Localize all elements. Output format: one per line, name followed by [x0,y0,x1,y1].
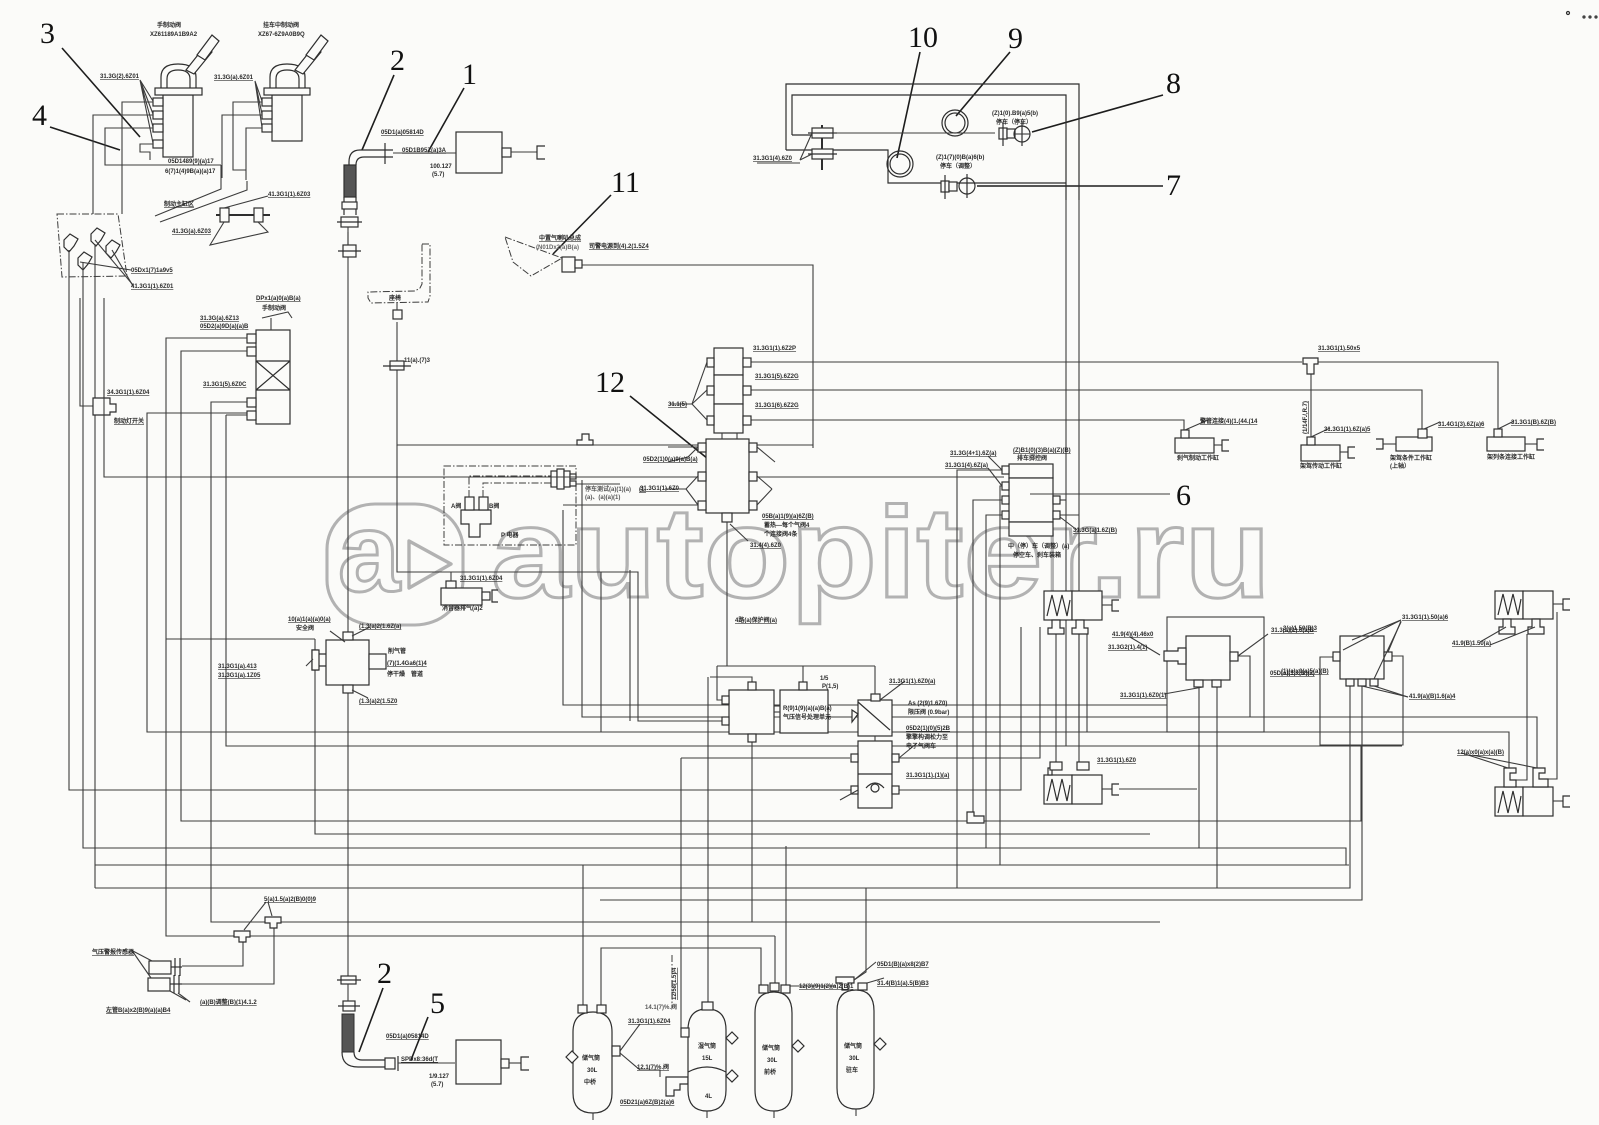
svg-text:挂车中制动阀: 挂车中制动阀 [263,21,299,29]
svg-text:A阀: A阀 [451,502,461,510]
spring chamber top left [1044,591,1119,634]
wire x752 drop [751,741,753,922]
wire rchamber bracket x1557 [1548,612,1557,779]
wire left bundle v x83 [83,298,1346,865]
svg-text:座椅: 座椅 [388,294,401,302]
svg-text:制动灯开关: 制动灯开关 [114,417,144,425]
svg-text:41.9(a)(B)1.6(a)4: 41.9(a)(B)1.6(a)4 [1409,694,1456,700]
wire left bundle v x69 [69,296,851,790]
svg-text:(5.7): (5.7) [432,172,444,178]
svg-text:11(a).(7)3: 11(a).(7)3 [404,358,431,364]
svg-text:10: 10 [908,21,938,54]
svg-text:储气筒: 储气筒 [761,1044,780,1052]
svg-text:(1)(a)x0(a)5(a)(B): (1)(a)x0(a)5(a)(B) [1281,669,1329,675]
svg-text:1/5: 1/5 [820,676,829,682]
svg-text:9: 9 [1008,22,1023,55]
tee bottom left 2 [265,917,281,928]
wire abs left port y721 [629,570,631,721]
svg-text:31.3G(a).6Z01: 31.3G(a).6Z01 [214,75,254,81]
air tank 1 [566,1005,688,1120]
pressure sensor 2 [133,952,190,1002]
svg-text:(1.3(a)2(1.5Z0: (1.3(a)2(1.5Z0 [359,699,398,705]
leader fans to valve ports [140,80,262,143]
svg-text:12(a)x0(a)x(a)(B): 12(a)x0(a)x(a)(B) [1457,750,1504,756]
valve 12 block [104,298,775,666]
wire seat drop x397 [397,322,577,445]
wire horn line [581,265,813,445]
svg-text:蓄热—每个气阀4: 蓄热—每个气阀4 [764,521,810,529]
wire frame right inner [1065,200,1067,746]
wire dashbox drop x638 [397,445,729,721]
svg-text:31.3G1(1).6Z0: 31.3G1(1).6Z0 [1097,758,1137,764]
callout 2 lower [359,957,392,1052]
wire bus y865 [95,864,1349,866]
svg-text:架驾传动工作缸: 架驾传动工作缸 [1299,462,1342,470]
svg-text:31.3G1(a).1Z05: 31.3G1(a).1Z05 [218,673,261,679]
svg-text:05D2(1)0(a)9(a)B(a): 05D2(1)0(a)9(a)B(a) [643,457,698,463]
svg-text:P(1,5): P(1,5) [822,684,838,690]
wire abs left y677 [710,677,752,682]
svg-text:(1.3(a)2(1.6Z(a): (1.3(a)2(1.6Z(a) [359,624,401,630]
callout 9 [956,22,1023,116]
svg-text:05Dx1(7)1a9v5: 05Dx1(7)1a9v5 [131,268,173,274]
callout 11 [553,166,640,254]
wire tank3-tank4 y986 [789,985,836,987]
wire frame right outer [1078,200,1080,732]
svg-text:(7)(1.4Ga6(1)4: (7)(1.4Ga6(1)4 [387,661,427,667]
svg-text:1/9.127: 1/9.127 [429,1074,450,1080]
svg-text:手制动阀: 手制动阀 [262,304,286,312]
svg-text:05D1489(9)(a)17: 05D1489(9)(a)17 [168,159,214,165]
cab frame top right [757,84,1079,200]
svg-text:8: 8 [1166,67,1181,100]
horn 11 [505,237,582,276]
svg-text:12.1(7)%.阀: 12.1(7)%.阀 [637,1063,669,1071]
pressure sensor 1 [131,950,182,976]
wire tank4 elbow x866 [854,888,866,980]
abs box B ecu [774,682,828,733]
wire relay right stub [1238,656,1250,717]
callout 8 [1032,67,1181,132]
wire sensor1 to tee [182,942,243,966]
svg-text:手制动阀: 手制动阀 [157,21,181,29]
svg-text:30L: 30L [849,1056,860,1062]
wire valve6 left drop x1000 [1000,486,1002,865]
drain dashdot line [671,955,673,1008]
svg-text:3(a)1.50(B)3: 3(a)1.50(B)3 [1283,626,1318,632]
svg-text:6(7)1(4)9B(a)(a)17: 6(7)1(4)9B(a)(a)17 [165,169,216,175]
svg-text:41.3G1(1).6Z03: 41.3G1(1).6Z03 [268,192,311,198]
mini cylinder 4 [1487,421,1544,451]
wire valve12 out y362 [751,361,1302,363]
svg-text:停车测试(a)(1)(a): 停车测试(a)(1)(a) [585,485,631,493]
wires from hand valves [122,102,153,214]
svg-text:31.3G(a).6Z13: 31.3G(a).6Z13 [200,316,240,322]
cross fittings left of frame [800,125,837,170]
tee fitting on seat line [383,361,411,370]
svg-text:前桥: 前桥 [764,1068,777,1076]
svg-text:31.4G1(3).6Z(a)6: 31.4G1(3).6Z(a)6 [1438,422,1485,428]
svg-text:(Z)1(0).B9(a)5(b): (Z)1(0).B9(a)5(b) [992,111,1038,117]
svg-text:5: 5 [430,987,445,1020]
svg-text:(Z)B1(0)(3)B(a)(Z)(B): (Z)B1(0)(3)B(a)(Z)(B) [1013,448,1071,454]
svg-text:制动主缸区: 制动主缸区 [164,200,194,208]
manifold bar [210,196,270,245]
wire y758 right [899,627,1040,758]
wire tank3 right x786 [785,846,787,992]
svg-text:31.3G1(1).6Z(a)5: 31.3G1(1).6Z(a)5 [1324,427,1371,433]
svg-text:4L: 4L [705,1094,712,1100]
hand control valve right [262,35,328,141]
svg-text:P 电器: P 电器 [501,531,520,539]
svg-text:05D1(a)05814D: 05D1(a)05814D [386,1034,429,1040]
wire y888 relay right drop2 [95,687,1217,888]
svg-text:31.3G1(1).6Z0: 31.3G1(1).6Z0 [640,486,680,492]
wire tank3 feed x774 [774,936,776,990]
callout 1 [428,58,477,152]
wire rv tab drop x1350 [1217,686,1350,888]
svg-text:储气筒: 储气筒 [843,1042,862,1050]
svg-text:中桥: 中桥 [584,1078,597,1086]
svg-text:司警电源到(4).2(1.5Z4: 司警电源到(4).2(1.5Z4 [589,242,649,250]
svg-text:31.4(B)1(a).5(B)B3: 31.4(B)1(a).5(B)B3 [877,981,929,987]
svg-text:架驾条件工作缸: 架驾条件工作缸 [1389,454,1432,462]
callout 10 [897,21,938,158]
svg-text:05D1(a)05814D: 05D1(a)05814D [381,130,424,136]
hose 2 lower [337,976,455,1071]
right valve block [1333,620,1408,697]
wire y790 relay bottom [899,627,1021,790]
gauge 10 [887,151,913,177]
svg-text:(5.7): (5.7) [431,1082,443,1088]
valve 12 column [670,348,751,433]
wire solenoid feed x211 [211,403,1160,922]
check valve mid [852,666,905,736]
svg-text:autopiter.ru: autopiter.ru [491,481,1271,625]
svg-text:4路(a)保护阀(a): 4路(a)保护阀(a) [735,616,777,624]
svg-text:(1/14F./,R.7): (1/14F./,R.7) [1303,401,1309,434]
valve 6 [988,456,1170,536]
svg-text:14.1(7)%.阀: 14.1(7)%.阀 [645,1003,677,1011]
wire solenoid feed x181 [181,352,1361,821]
wire chamber tab x1079 [1078,634,1080,768]
callout 4 [32,99,120,150]
wire dashbox drop x601 [600,572,602,732]
svg-text:(上轴）: (上轴） [1390,462,1410,470]
safety valve [306,627,386,698]
svg-text:B阀: B阀 [489,502,499,510]
svg-text:6: 6 [1176,479,1191,512]
svg-text:警管连接(4)(1.(44.(14: 警管连接(4)(1.(44.(14 [1199,417,1258,425]
svg-text:05D2(1)(0)(5)2B: 05D2(1)(0)(5)2B [906,726,951,732]
mini cylinder 2 [1301,428,1355,461]
svg-text:05D2(a)9D(a)(a)B: 05D2(a)9D(a)(a)B [200,324,249,330]
svg-text:湿气筒: 湿气筒 [698,1042,716,1050]
wire y705 [563,510,1167,705]
svg-text:中（停）车（调整）(a): 中（停）车（调整）(a) [1008,542,1069,550]
svg-text:31.3G2(1).4(1): 31.3G2(1).4(1) [1108,645,1147,651]
svg-text:DPx1(a)0(a)B(a): DPx1(a)0(a)B(a) [256,296,301,302]
svg-text:41.9(B)1.50(a): 41.9(B)1.50(a) [1452,641,1491,647]
wire rv loop [1320,656,1403,745]
wire solenoid feed x226 [226,415,1402,746]
dryer box 1 [393,132,545,173]
svg-text:SPDx8:36d(T: SPDx8:36d(T [401,1057,438,1063]
spring chamber top right [1480,591,1570,645]
svg-text:(Z)1(7)(0)B(a)6(b): (Z)1(7)(0)B(a)6(b) [936,155,984,161]
mini cylinder 3 [1376,422,1440,451]
svg-text:XZ67-6Z9A0B9Q: XZ67-6Z9A0B9Q [258,32,305,38]
air tank 4 [836,962,886,1116]
svg-text:31.1(5): 31.1(5) [668,402,687,408]
svg-text:30L: 30L [767,1058,778,1064]
wire rv tab drop x1362 [600,686,1362,900]
wire tee down to cyl2 [1310,374,1312,445]
gauge 9 [942,110,968,136]
silencer small [441,572,498,605]
svg-text:31.3G1(1).6Z2P: 31.3G1(1).6Z2P [753,346,796,352]
svg-text:31.3G1(5).6Z2G: 31.3G1(5).6Z2G [755,374,799,380]
svg-text:15L: 15L [702,1056,713,1062]
abs box A [722,682,774,742]
svg-text:a: a [338,490,401,615]
svg-text:34.3G1(1).6Z04: 34.3G1(1).6Z04 [107,390,150,396]
svg-text:电子气阀车: 电子气阀车 [906,742,936,750]
svg-text:刹气制动工作缸: 刹气制动工作缸 [1177,454,1219,462]
wire relay loop rect [1167,617,1264,732]
fitting 7 [941,174,975,199]
wire y758 relay feed [681,757,850,759]
svg-text:个连接阀4条: 个连接阀4条 [763,530,798,538]
wire ecu top drop [802,666,804,682]
svg-text:30L: 30L [587,1068,598,1074]
svg-text:31.3G1(1).6Z04: 31.3G1(1).6Z04 [628,1019,671,1025]
callout 7 [977,169,1181,202]
wire x680 drop [681,758,685,1029]
wire abs top left [717,666,722,700]
tee bottom left 1 [234,931,250,942]
pressure test dash box [444,466,1004,545]
callout 5 [411,987,445,1060]
svg-text:31.3G1(1).6Z0(a): 31.3G1(1).6Z0(a) [889,679,935,685]
svg-text:4: 4 [32,99,47,132]
wire x708 drop [707,677,709,1003]
svg-text:中置气喇叭总成: 中置气喇叭总成 [539,234,581,242]
svg-text:12(3)(9)1(2)(a)2(B)1: 12(3)(9)1(2)(a)2(B)1 [799,984,854,990]
svg-text:12: 12 [595,366,625,399]
svg-text:31.3G1(B).6Z(B): 31.3G1(B).6Z(B) [1511,420,1556,426]
svg-text:100.127: 100.127 [430,164,452,170]
svg-text:(N01Dx2(a)B(a): (N01Dx2(a)B(a) [536,245,579,251]
svg-text:储气筒: 储气筒 [581,1054,600,1062]
svg-text:41.9(4)(4).46x0: 41.9(4)(4).46x0 [1112,632,1154,638]
wire valve12 out y389 [751,390,1422,430]
svg-text:停空车、刹车装箱: 停空车、刹车装箱 [1013,551,1061,559]
svg-text:(a)、(a)(a)(1): (a)、(a)(a)(1) [585,495,620,501]
hand control valve left [153,35,219,157]
wire main hose line x348 [347,232,349,640]
tee y821 [967,812,984,823]
air tank 2 [681,1002,738,1118]
wire valve12 out y420 [751,420,1184,430]
svg-text:31.3G1(1).50(a)6: 31.3G1(1).50(a)6 [1402,615,1449,621]
svg-text:气压警报传感器: 气压警报传感器 [91,948,135,956]
relay valve right [1130,634,1268,694]
svg-text:41.3G(a).6Z03: 41.3G(a).6Z03 [172,229,212,235]
wire bundle sensor feed x80 [80,298,93,406]
svg-text:左管B(a)x2(B)9(a)(a)B4: 左管B(a)x2(B)9(a)(a)B4 [105,1006,171,1014]
svg-text:10(a)1(a)(a)0(a): 10(a)1(a)(a)0(a) [288,617,331,623]
svg-text:31.3G1(5).6Z0C: 31.3G1(5).6Z0C [203,382,247,388]
svg-text:31.3G1(1).50x5: 31.3G1(1).50x5 [1318,346,1361,352]
svg-text:停干燥 管道: 停干燥 管道 [387,670,423,678]
svg-text:安全阀: 安全阀 [296,624,314,632]
spring chamber bottom right [1462,753,1570,816]
svg-text:擎擎构调松力至: 擎擎构调松力至 [906,733,948,741]
solenoid valve assembly left [166,312,292,424]
svg-text:31.3G(2).6Z01: 31.3G(2).6Z01 [100,74,140,80]
wire valve6 left drop x975 [973,500,1002,812]
wire abs top bus y666 [717,665,875,667]
relay valve mid [840,736,916,808]
svg-text:限压阀 (0.9bar): 限压阀 (0.9bar) [908,708,949,716]
svg-text:(a)(B)调整(B)(1)4.1.2: (a)(B)调整(B)(1)4.1.2 [200,998,257,1006]
svg-text:2: 2 [377,957,392,990]
svg-text:31.3G1(1).(1)(a): 31.3G1(1).(1)(a) [906,773,949,779]
svg-text:XZ61189A1B9A2: XZ61189A1B9A2 [150,32,198,38]
svg-text:削气管: 削气管 [388,647,406,655]
wire y852 relay right drop [1198,687,1200,848]
svg-text:As (2(9)1.6Z0): As (2(9)1.6Z0) [908,701,947,707]
wire tee to valve12 [593,445,813,448]
svg-text:31.3G1(1).6Z04: 31.3G1(1).6Z04 [460,576,503,582]
svg-text:05D21(a)6Z(B)2(a)6: 05D21(a)6Z(B)2(a)6 [620,1100,675,1106]
svg-text:05D1B95Z(a)3A: 05D1B95Z(a)3A [402,148,447,154]
wire main hose line x348 lower [347,692,349,978]
svg-text:31.3G1(6).6Z2G: 31.3G1(6).6Z2G [755,403,799,409]
tee on y445 [577,434,593,445]
svg-text:31.3G(4+1).6Z(a): 31.3G(4+1).6Z(a) [950,451,997,457]
svg-text:31.3G1(4).6Z0: 31.3G1(4).6Z0 [753,156,793,162]
svg-text:停车（停车）: 停车（停车） [996,118,1032,126]
watermark autopiter.ru [327,481,1271,625]
svg-text:12/58(1.5)/4: 12/58(1.5)/4 [672,967,678,1000]
callout 3 [40,17,140,137]
wire safety drop x315 [315,639,1150,834]
svg-text:3: 3 [40,17,55,50]
svg-text:气压信号处理单元: 气压信号处理单元 [782,713,831,721]
svg-text:5(a)1.5(a)2(B)0(0)9: 5(a)1.5(a)2(B)0(0)9 [264,897,317,903]
svg-text:驻车: 驻车 [846,1066,858,1074]
svg-text:R(9)1(9)(a)(a)B(a): R(9)1(9)(a)(a)B(a) [783,706,832,712]
leader tees label [244,902,266,930]
svg-text:1: 1 [462,58,477,91]
spring chamber lower left [1044,762,1197,804]
hose 2 upper [337,143,393,257]
svg-text:31.3G1(a).413: 31.3G1(a).413 [218,664,257,670]
brake light switch sensor [93,390,116,415]
wire left bundle v x95 [94,300,96,888]
wire y717 [582,480,1537,768]
wire solenoid feed x166 [166,340,775,936]
wire y732 [147,413,1509,768]
box 5 [456,1040,529,1084]
callout 2 [362,44,405,150]
svg-text:消音器排气(a)2: 消音器排气(a)2 [442,604,483,612]
svg-text:31.3G1(4).6Z(a): 31.3G1(4).6Z(a) [945,463,988,469]
wire chamber tab x1056 [1055,634,1057,768]
svg-text:31.3G1(1).6Z0(1): 31.3G1(1).6Z0(1) [1120,693,1166,699]
wire tee right to cyl4 [1318,362,1498,430]
svg-text:31.3G(a)1.6Z(B): 31.3G(a)1.6Z(B) [1073,528,1117,534]
callout 12 [595,366,718,467]
svg-text:2: 2 [390,44,405,77]
wire safety valve drop x315 [166,638,315,640]
svg-text:41.3G1(1).6Z01: 41.3G1(1).6Z01 [131,284,174,290]
air tank 3 [755,983,804,1118]
seat bracket [368,244,430,319]
svg-text:架列条连接工作缸: 架列条连接工作缸 [1486,453,1535,461]
tee y362 [1303,358,1318,374]
svg-text:31.4(4).6Z0: 31.4(4).6Z0 [750,543,782,549]
svg-text:05B(a)1(9)(a)6Z(B): 05B(a)1(9)(a)6Z(B) [762,514,814,520]
wire rchamber tab x1527 [1516,634,1527,780]
wire tank bus y948 [601,948,761,1007]
svg-text:05D1(B)(a)x8(2)B7: 05D1(B)(a)x8(2)B7 [877,962,929,968]
svg-text:停车（调整）: 停车（调整） [940,162,976,170]
wire chamber tab x1087 [1086,634,1088,732]
svg-text:7: 7 [1166,169,1181,202]
callout 6 [1176,479,1191,512]
wire tank1 feed x583 [582,865,584,1007]
fitting 8 [833,122,1030,146]
wire sensor2 to tee2 [182,928,274,984]
mini cylinder 1 [1175,420,1229,453]
svg-text:排车掷控阀: 排车掷控阀 [1017,454,1047,462]
svg-text:11: 11 [611,166,640,199]
pedal group dashed box [57,214,133,300]
